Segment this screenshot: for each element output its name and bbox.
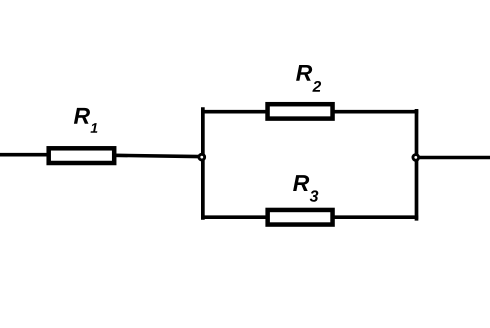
wire top branch	[201, 110, 418, 114]
label R2	[296, 65, 312, 81]
wire R1 to node A	[114, 155, 199, 156]
label R3	[293, 175, 309, 191]
resistor R3	[268, 210, 333, 225]
resistor R2	[268, 104, 333, 118]
wire left vertical	[201, 107, 205, 219]
wire right output	[418, 156, 490, 160]
wire left input	[0, 153, 48, 157]
node B	[413, 155, 419, 161]
wire bottom branch	[201, 215, 418, 219]
resistor R1	[49, 148, 115, 163]
label R1	[74, 108, 90, 124]
node A	[199, 154, 205, 160]
wire right vertical	[415, 109, 419, 221]
